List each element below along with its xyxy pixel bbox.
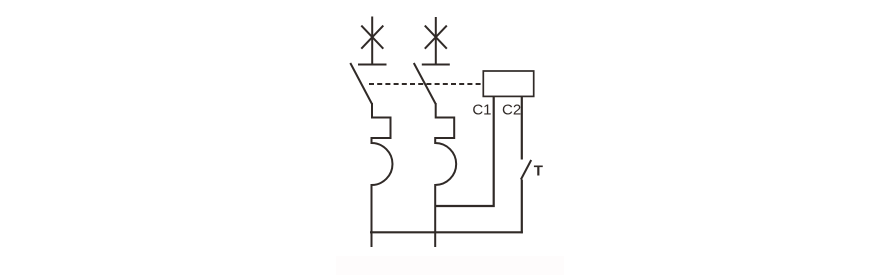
svg-text:C1: C1 bbox=[472, 102, 491, 119]
svg-text:C2: C2 bbox=[502, 102, 521, 119]
svg-text:T: T bbox=[534, 163, 543, 180]
